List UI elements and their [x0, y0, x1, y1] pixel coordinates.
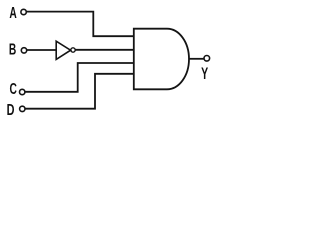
node B label [9, 40, 17, 58]
inverter U1 bubble [71, 48, 75, 52]
input terminal A [21, 9, 26, 14]
node Y label [201, 63, 209, 82]
svg-text:Y: Y [201, 63, 209, 82]
wire Y output [189, 58, 204, 60]
input terminal C [20, 89, 25, 94]
wire A [26, 12, 134, 37]
input terminal B [21, 48, 26, 53]
inverter U1 triangle [56, 41, 70, 59]
output terminal Y [204, 56, 210, 62]
node C label [10, 80, 18, 98]
wire D [25, 74, 134, 109]
svg-text:A: A [9, 4, 17, 22]
node A label [9, 4, 17, 22]
input terminal D [20, 106, 25, 111]
svg-text:B: B [9, 40, 17, 58]
svg-text:D: D [7, 101, 15, 119]
wire B [27, 49, 56, 51]
wire B inverted [75, 49, 134, 51]
node D label [7, 101, 15, 119]
svg-text:C: C [10, 80, 18, 98]
AND gate U2 [134, 29, 189, 90]
wire C [25, 63, 134, 92]
